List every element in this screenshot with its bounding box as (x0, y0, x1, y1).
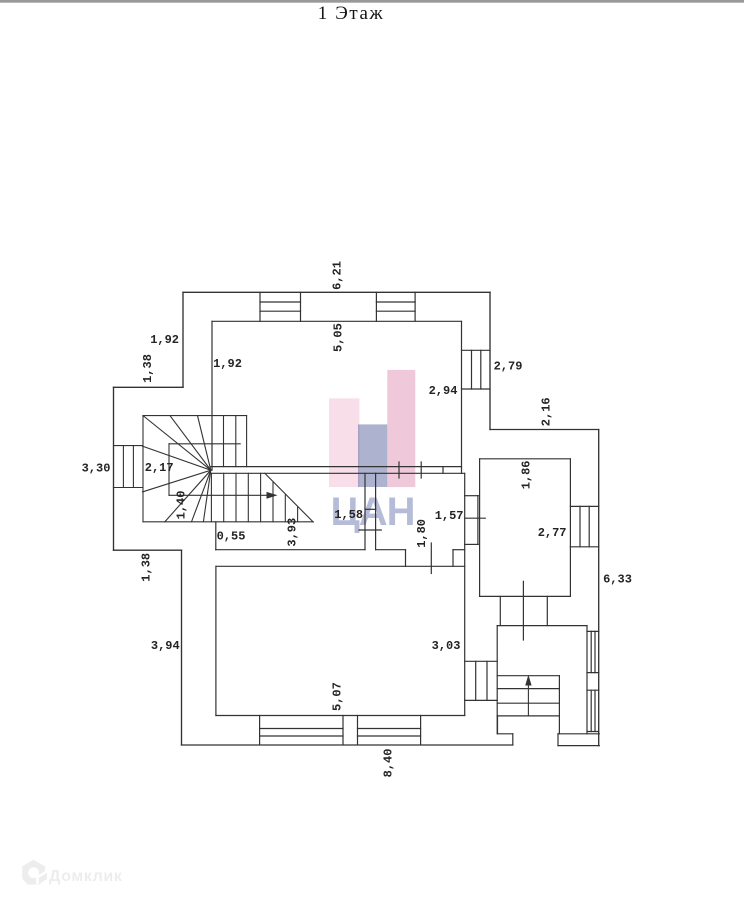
stair short tread 2 (284, 495, 286, 522)
porch block left (557, 734, 559, 746)
passage right wall (546, 596, 548, 625)
top room right wall (461, 321, 463, 473)
top room left wall (211, 321, 213, 470)
porch step 4 (497, 715, 559, 717)
watermark bar blue (358, 424, 387, 487)
svg-text:3,93: 3,93 (286, 518, 300, 547)
svg-text:3,30: 3,30 (82, 461, 111, 475)
stair box top (143, 415, 247, 417)
band door tick (430, 543, 432, 574)
stair arrow head (267, 492, 278, 499)
window top-2 caps (376, 292, 415, 321)
svg-text:1,58: 1,58 (334, 508, 363, 522)
level line (522, 581, 524, 640)
porch arrow shaft (527, 684, 529, 716)
big room top wall (216, 565, 465, 567)
svg-text:1,80: 1,80 (415, 519, 429, 548)
svg-text:1,86: 1,86 (520, 460, 534, 489)
window bottom-2 caps (358, 716, 421, 745)
window top-2 panes (376, 302, 415, 311)
stair fan line 3 (198, 416, 211, 471)
stair short tread 1 (272, 483, 274, 522)
svg-text:5,05: 5,05 (331, 323, 345, 352)
svg-text:1,38: 1,38 (141, 354, 155, 383)
window east panes (476, 661, 487, 700)
window se-upper caps (587, 631, 599, 672)
outer wall bottom (182, 744, 513, 746)
stair fan line 1 (143, 416, 211, 471)
svg-text:8,40: 8,40 (382, 749, 396, 778)
mid wall jamb (442, 467, 444, 474)
outer wall step left (114, 386, 184, 388)
band wall seg1 (216, 549, 365, 551)
stair fan line 7 (192, 470, 211, 522)
stair fan line 6 (165, 470, 211, 522)
porch right wall (586, 626, 588, 734)
wc door connector top (465, 495, 479, 497)
porch notch top (498, 733, 513, 735)
svg-text:5,07: 5,07 (330, 682, 344, 711)
partition tick lower (359, 529, 381, 531)
stair direction arrow shaft (169, 494, 267, 496)
svg-text:1,38: 1,38 (140, 553, 154, 582)
porch step 3 (497, 702, 559, 704)
window bottom-1 caps (260, 716, 343, 745)
window top-1 caps (260, 292, 301, 321)
stair inner box left (168, 444, 170, 496)
outer wall right (598, 430, 600, 746)
right section left wall (479, 459, 481, 597)
porch left wall (496, 626, 498, 734)
door tick b (420, 462, 422, 478)
wc left wall / big room right wall (464, 473, 466, 715)
stair lower tread 2 (235, 473, 237, 522)
svg-text:1,40: 1,40 (174, 491, 188, 520)
stair box left (142, 416, 144, 522)
passage left wall (499, 596, 501, 625)
porch steps right wall (558, 676, 560, 734)
window 2,77 panes (580, 506, 589, 546)
window west 3,30 caps (114, 446, 143, 488)
window bottom-1 panes (260, 729, 343, 737)
svg-text:2,94: 2,94 (429, 384, 458, 398)
outer wall top (183, 291, 490, 293)
window 2,77 caps (570, 506, 598, 546)
window se-lower panes (591, 690, 595, 731)
wc right jamb (477, 496, 479, 545)
wc door connector mid with tick (465, 517, 486, 519)
svg-text:2,79: 2,79 (494, 360, 523, 374)
stair lower tread 3 (247, 473, 249, 522)
outer wall right upper (489, 292, 491, 429)
outer wall left (113, 387, 115, 550)
partition wall line 1 (364, 473, 366, 549)
mid wall upper line (211, 466, 462, 468)
inner wall below top windows (212, 320, 462, 322)
stair upper tread 1 (223, 416, 225, 467)
stair lower tread 4 (260, 473, 262, 522)
porch top wall (497, 625, 587, 627)
window right 2,79 caps (462, 350, 491, 389)
wc door connector bottom (465, 543, 479, 545)
watermark bar light pink (329, 398, 359, 487)
stair box right upper (246, 416, 248, 467)
porch block top (558, 733, 599, 735)
svg-text:6,33: 6,33 (603, 573, 632, 587)
stair fan line 2 (170, 416, 211, 471)
stair upper tread 2 (235, 416, 237, 467)
stair lower tread 1 (223, 473, 225, 522)
band wall seg2 (376, 549, 406, 551)
porch step 2 (497, 688, 559, 690)
svg-text:0,55: 0,55 (217, 530, 246, 544)
stair cut diagonal (265, 473, 313, 522)
band jamb left (405, 550, 407, 567)
porch step 1 (497, 675, 559, 677)
watermark bar dark pink (387, 370, 415, 487)
outer wall left lower (181, 550, 183, 745)
window west 3,30 panes (123, 446, 133, 488)
porch arrow head (525, 675, 531, 686)
window east caps (465, 661, 498, 700)
mid wall lower line (211, 472, 465, 474)
window top-1 panes (260, 302, 301, 311)
room 1,86 bottom wall (480, 595, 571, 597)
stair fan line 4 (143, 446, 211, 470)
porch block bottom (558, 745, 599, 747)
stair landing tick (169, 443, 240, 445)
porch notch right (512, 734, 514, 745)
room 1,86 right wall (569, 459, 571, 597)
window bottom-2 panes (358, 729, 421, 737)
svg-text:6,21: 6,21 (331, 261, 345, 290)
porch notch left (497, 716, 499, 734)
domclick icon (22, 860, 48, 885)
stair box bottom (143, 521, 313, 523)
outer wall step right (490, 429, 599, 431)
stair lower left edge (210, 473, 212, 522)
band jamb right (452, 550, 454, 567)
svg-text:1,92: 1,92 (213, 357, 242, 371)
door tick a (398, 462, 400, 478)
svg-text:1 Этаж: 1 Этаж (318, 3, 385, 24)
svg-text:2,16: 2,16 (540, 397, 554, 426)
room 1,86 top wall (480, 458, 571, 460)
svg-text:2,17: 2,17 (145, 461, 174, 475)
svg-text:3,03: 3,03 (432, 639, 461, 653)
svg-text:2,77: 2,77 (538, 526, 567, 540)
big room left wall (215, 566, 217, 715)
wall below stairs (215, 522, 217, 550)
window se-upper panes (591, 631, 595, 672)
band wall seg3 (453, 549, 465, 551)
top gray rule (0, 0, 744, 3)
svg-text:Домклик: Домклик (49, 868, 123, 885)
window right 2,79 panes (472, 350, 481, 389)
stair fan line 8 (203, 470, 210, 522)
big room bottom wall (216, 715, 465, 717)
stair short tread 3 (297, 507, 299, 522)
outer wall step lower left (114, 549, 182, 551)
svg-text:1,57: 1,57 (435, 509, 464, 523)
partition wall line 2 (375, 473, 377, 549)
partition tick 1,58 (365, 508, 376, 510)
svg-text:1,92: 1,92 (150, 333, 179, 347)
outer wall left upper (182, 292, 184, 387)
svg-text:3,94: 3,94 (151, 639, 180, 653)
stair fan line 5 (143, 470, 211, 492)
window se-lower caps (587, 690, 599, 731)
